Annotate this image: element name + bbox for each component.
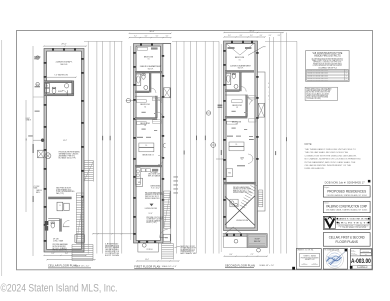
plan3 porch column xyxy=(234,239,238,243)
plan3 bedroom2 dim ticks xyxy=(232,111,236,112)
plan3 right wall tag xyxy=(255,147,257,150)
plan2 bedroom3 furniture xyxy=(137,122,147,125)
plan2 kitchen counter xyxy=(136,168,141,185)
plan3 top wall blobs xyxy=(231,41,233,43)
plan2 bedroom2 closet lines xyxy=(152,97,161,100)
architect logo box xyxy=(323,216,370,229)
plan3 bath sink xyxy=(234,84,238,88)
sheet scan left edge xyxy=(1,40,3,276)
site line annotation dashes right of plan2 wing xyxy=(173,176,178,179)
plan2 wing stair ladder xyxy=(163,191,165,229)
plan2 bath sink xyxy=(144,86,148,90)
plan1 laundry fixtures xyxy=(45,83,50,87)
plan2 left elevation bubble xyxy=(126,98,130,102)
plan2 top jog edge xyxy=(163,43,171,45)
seal note black square xyxy=(292,267,295,270)
plan1 bathroom toilet xyxy=(52,88,56,93)
plan1 left leader bubble xyxy=(41,139,44,142)
plan1 side yard stair ladder xyxy=(83,161,85,182)
vb table xyxy=(307,70,349,81)
plan3 hall partition xyxy=(246,95,248,117)
plan2 hall door arcs mid xyxy=(158,155,163,160)
plan3 laundry rects xyxy=(227,169,233,177)
black square bottom of number box xyxy=(350,266,353,269)
plan3 bottom wall band xyxy=(223,234,247,237)
architect name row xyxy=(337,218,339,220)
plan2 hall partition xyxy=(156,96,158,118)
plan1 lower bath toilet xyxy=(51,223,55,228)
plan2 bottom dim xyxy=(137,260,179,262)
plan2 washer dryer xyxy=(136,178,143,186)
plan2 bedroom2 furniture xyxy=(137,100,147,103)
blue professional seal outer ring placeholder xyxy=(326,251,344,269)
plan3 wall opening blobs right xyxy=(256,52,258,54)
plan1 bathroom walls xyxy=(44,81,74,83)
plan1 wall opening blobs left xyxy=(44,62,47,64)
plan3 bath toilet xyxy=(232,74,235,79)
plan3 left dim line xyxy=(220,44,222,252)
plan3 wing shaft xbox xyxy=(258,103,264,117)
plan1 bottom dim line 2 xyxy=(47,259,95,261)
plan2 stoop leader xyxy=(175,246,180,247)
svg-text:LICENSED: LICENSED xyxy=(332,266,338,268)
approval stamp box xyxy=(296,249,321,270)
sheet border frame xyxy=(17,31,373,270)
fire note small box xyxy=(305,87,337,100)
plan2 bath toilet xyxy=(142,74,145,79)
plan2 top wall blobs xyxy=(140,43,142,45)
site line text marks group2 xyxy=(195,136,198,141)
plan3 bedroom2 door arc xyxy=(250,100,254,104)
site vertical lines between plan2 and plan3 xyxy=(176,41,178,253)
plan3 right wing xyxy=(258,72,266,211)
approval inner box xyxy=(300,253,320,266)
plan1 stair diagonal xyxy=(76,196,83,243)
plan3 bedroom2 closet lines xyxy=(249,96,256,99)
plan2 top dim line lower xyxy=(129,37,171,39)
plan1 lower bath partition xyxy=(60,219,62,232)
plan1 left margin tiny marks xyxy=(34,56,40,57)
plan1 left wall bubble upper xyxy=(36,56,40,60)
site elevation bubble on line xyxy=(211,143,216,148)
plan3 wall opening blobs left xyxy=(223,50,226,52)
plan2 wing shaft xbox xyxy=(164,88,171,98)
plan1 left dimension line inner xyxy=(32,46,34,256)
plan2 closet rects xyxy=(139,143,154,147)
plan3 front room roof diagonals xyxy=(226,44,240,55)
plan3 porch roof V xyxy=(225,227,233,234)
plan1 landing box xyxy=(75,235,85,243)
plan3 bedroom3 dim ticks xyxy=(232,128,236,129)
plan3 bedroom3 divider wall xyxy=(225,116,247,118)
plan2 bath door arcs xyxy=(151,88,156,93)
plan3 bath door arcs xyxy=(241,87,246,92)
plan2 entry box xyxy=(163,234,170,241)
plan3 bedroom2 furniture xyxy=(232,100,242,103)
plan3 left dim texts xyxy=(218,105,223,106)
dob now black square xyxy=(368,180,371,183)
plan3 bath walls xyxy=(225,71,254,73)
plan3 hall texts xyxy=(249,136,253,137)
site vertical lines right of plan3 xyxy=(269,37,271,254)
plan1 top wall blobs xyxy=(52,48,54,50)
plan3 bottom dim xyxy=(224,255,267,257)
plan2 kitchen appliance cluster xyxy=(141,169,145,172)
plan1 bathroom sink xyxy=(64,84,68,88)
plan2 bedroom2 door arc xyxy=(157,112,162,117)
plan2 kitchen divider wall xyxy=(135,165,162,167)
plan3 bedroom2 divider xyxy=(225,94,246,96)
plan2 front stoop stairs xyxy=(161,244,163,260)
plan2 bedroom3 dim ticks xyxy=(142,129,146,130)
plan2 left dim line xyxy=(130,46,132,240)
plan1 interior stair ladder xyxy=(75,193,77,244)
plan2 bathtub xyxy=(136,74,141,86)
plan1 boiler room wall xyxy=(48,197,71,199)
plan2 right wing xyxy=(163,44,171,244)
plan3 bedroom1 dark marks xyxy=(228,47,235,49)
plan1 bathroom dimension xyxy=(46,76,76,78)
plan3 lower divider wall xyxy=(224,182,256,184)
plan1 window well box xyxy=(38,150,44,158)
plan2 ceiling fan symbol xyxy=(150,204,154,207)
plan2 wall opening blobs right xyxy=(162,55,164,57)
plan2 porch column xyxy=(142,243,146,247)
sheet number box xyxy=(350,249,372,270)
plan3 open porch below xyxy=(224,236,248,247)
plan1 wall opening blobs right xyxy=(81,58,84,60)
plan3 interior stair diagonal ladder xyxy=(252,183,258,186)
plan2 porch annex xyxy=(138,243,158,252)
plan2 bedroom3 closet lines xyxy=(152,120,161,123)
plan2 bedroom3 divider wall xyxy=(135,118,157,120)
sheet number footer xyxy=(350,264,372,266)
owner box xyxy=(323,201,370,212)
plan1 left wall bubble mid xyxy=(36,82,40,86)
black square between seal and number box xyxy=(345,249,347,251)
seal box xyxy=(323,249,347,270)
project box xyxy=(323,186,370,197)
plan1 exterior stair ladder xyxy=(71,245,73,261)
plan1 side dim line at bottom xyxy=(93,233,135,235)
site connector line right bay xyxy=(265,40,297,42)
plan2 entry door arcs xyxy=(160,229,168,237)
svg-text:NEW YORK: NEW YORK xyxy=(331,252,338,254)
plan2 bottom wall blobs xyxy=(138,241,140,243)
plan3 bathtub xyxy=(226,73,231,85)
plan1 lower door arc xyxy=(63,220,69,226)
plan1 cellar building outer walls xyxy=(44,49,84,253)
plan3 closet rects xyxy=(229,142,244,146)
plan1 bottom dim line 1 xyxy=(44,254,86,256)
plan1 bathroom door arc xyxy=(62,90,68,96)
plan1 left dimension line outer xyxy=(25,100,27,212)
plan3 top dim line lower xyxy=(224,36,265,38)
site connector line mid bay xyxy=(172,40,219,42)
plan3 building outer walls xyxy=(224,41,258,231)
site line text marks group3 xyxy=(285,137,288,141)
plan3 bedroom3 closet lines xyxy=(249,119,256,122)
plan2 building outer walls xyxy=(134,44,164,244)
site line text marks group1 xyxy=(101,136,104,141)
plan2 mid window texts xyxy=(137,137,143,138)
site connector line top left bay xyxy=(84,40,123,42)
plan3 leader arrow top right xyxy=(248,47,263,56)
site elevation bubble 2 xyxy=(206,111,210,115)
plan2 bedroom2 divider xyxy=(135,95,156,97)
plan1 boiler fixtures xyxy=(57,202,63,211)
plan3 bedroom3 furniture xyxy=(227,121,237,124)
architect logo emblem xyxy=(324,217,335,228)
plan2 bath walls xyxy=(135,71,162,73)
plan1 sump pump symbol xyxy=(45,153,51,159)
site vertical lines between plan1 and plan2 xyxy=(87,41,89,253)
plan3 roof X diagonal 2 xyxy=(225,197,255,226)
plan3 wing stair ladder xyxy=(258,190,260,207)
plan3 lower column circle xyxy=(257,248,261,252)
plan2 right half bubble xyxy=(163,143,165,148)
vb construction type box xyxy=(306,51,349,82)
plan2 bedroom1 furniture xyxy=(137,47,147,50)
plan2 bedroom2 dim ticks xyxy=(142,112,146,113)
plan3 roof below gray rect xyxy=(247,234,267,248)
plan2 wall opening blobs left xyxy=(133,52,136,54)
plan3 mid window texts xyxy=(227,136,233,137)
plan3 left leader line xyxy=(216,158,223,160)
plan3 hall door arcs mid xyxy=(248,154,253,159)
plan3 roof X diagonal 1 xyxy=(225,196,255,225)
sheet title box xyxy=(323,233,370,247)
plan3 powder room xyxy=(230,199,238,207)
plan1 lower bath fixtures dark xyxy=(45,221,49,225)
